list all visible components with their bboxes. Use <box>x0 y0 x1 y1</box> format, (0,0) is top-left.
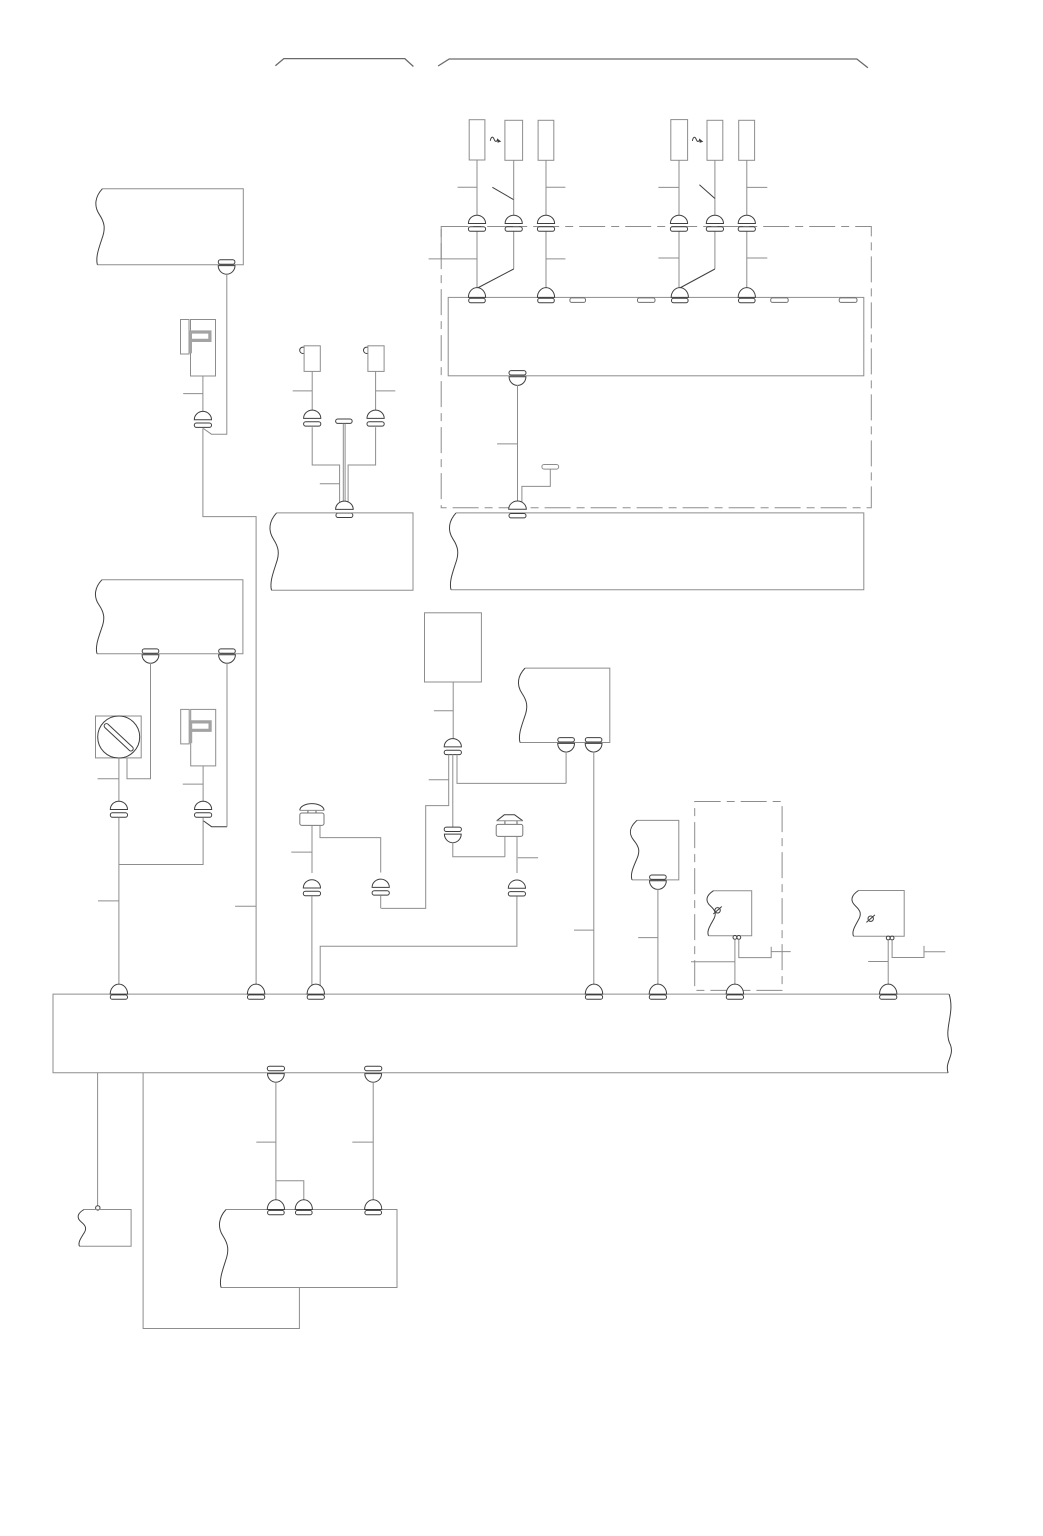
tick label wire C24 <box>574 929 594 931</box>
tick label wire B8 <box>868 961 888 963</box>
connector pair C9 at B1 <box>218 260 235 274</box>
wire C5 down <box>714 231 716 269</box>
connector pair C22 <box>508 880 525 896</box>
harness box B6 <box>630 820 678 880</box>
wire F3 down <box>545 160 547 215</box>
wire C24 to bus <box>593 752 595 992</box>
joint connector JC1 <box>300 804 324 826</box>
branch wire B8 <box>892 940 924 958</box>
wire J2 down <box>202 766 204 802</box>
wire B8 to bus <box>887 940 889 992</box>
fuse F4 <box>671 120 688 161</box>
fuse F5 <box>707 120 723 160</box>
spare terminal tab 2 <box>638 298 656 303</box>
tick label wire F1 <box>458 186 477 188</box>
wire F4 down <box>678 160 680 215</box>
diagonal joint F2 wire to dome D1 <box>478 269 514 288</box>
connector pair C3 <box>537 215 554 231</box>
tick label pin1 <box>429 779 449 781</box>
wire C15 drop <box>226 663 228 827</box>
tick label wire C3 <box>546 258 565 260</box>
bus connector (B7 chain) <box>726 984 743 999</box>
wire C12 route <box>348 427 376 507</box>
wire JC2 pinR <box>516 836 518 873</box>
tick label wire C4 <box>658 257 679 259</box>
spare terminal tab 3 <box>771 298 789 303</box>
lower junction box B <box>449 513 863 590</box>
tick label wire SW1 <box>98 778 119 780</box>
branch wire from stub <box>522 469 550 503</box>
bus connector (B6 chain) <box>649 984 666 999</box>
harness box B3 <box>95 580 242 654</box>
tick label bus drop wire <box>235 905 256 907</box>
wire C18 pin1 route <box>381 755 449 909</box>
tick label wire F3 <box>546 186 565 188</box>
component N1 <box>300 346 321 372</box>
tick label wire B4 <box>434 710 453 712</box>
terminal rings B7 <box>733 936 741 940</box>
bus connector (B5 chain) <box>585 984 602 999</box>
fuse F3 <box>538 120 554 160</box>
tick label wire B7 <box>691 961 735 963</box>
harness box B2 <box>270 513 413 590</box>
harness box B8 <box>852 891 904 937</box>
junction connector J1 <box>181 320 216 377</box>
bus connector (B1 chain) <box>247 984 264 999</box>
connector dome D1 at box A <box>468 288 485 303</box>
tick label wire C16 <box>98 900 119 902</box>
wire JC1 pin1 <box>311 825 313 873</box>
switch SW1 <box>96 716 142 758</box>
tick label JC1 pin1 <box>291 851 312 853</box>
wire C19 to JC2 <box>453 843 505 857</box>
wire C6 down <box>746 231 748 288</box>
tick label wire C6 <box>747 257 768 259</box>
connector pair C20 <box>303 880 320 896</box>
bus bottom connector E1 <box>267 1066 284 1082</box>
wire F2 down <box>513 160 515 215</box>
wire N1 down <box>311 371 313 412</box>
connector pair C18 <box>444 739 461 755</box>
connector dome D3 at box A <box>671 288 688 303</box>
wire C3 down <box>545 231 547 288</box>
diagonal joint C17 to B3 drop <box>204 821 228 827</box>
wire F6 down <box>746 160 748 215</box>
connector dome C28 at B10 <box>365 1200 382 1215</box>
connector pair C17 <box>195 801 212 817</box>
connector dome C27 at B10 <box>295 1200 312 1215</box>
twin wire from spare flange <box>343 424 345 504</box>
wire N2 down <box>375 371 377 412</box>
wire C14 to switch <box>127 663 151 779</box>
tick label wire J2 <box>183 783 203 785</box>
wire C1 to dome D1 <box>476 231 478 288</box>
wire C17 to junction <box>119 817 203 864</box>
connector pair C15 at B3 <box>219 649 236 663</box>
wire C25 to bus <box>657 889 659 992</box>
bolt symbol in B8 <box>866 915 875 923</box>
wire B1 to joint <box>203 274 227 435</box>
component N2 <box>364 346 385 372</box>
tick label wire J1 <box>183 393 203 395</box>
spare flange terminal <box>336 419 353 423</box>
component dashed outline (right) <box>695 802 782 991</box>
fuse F2 <box>505 120 523 160</box>
branch wire to C27 <box>276 1181 304 1205</box>
wire J1 down <box>202 376 204 412</box>
wire JC2 pinL <box>504 836 506 856</box>
harness brace B <box>438 59 868 68</box>
wire C18 pin2 <box>452 755 454 828</box>
tick label wire F6 <box>747 186 768 188</box>
option slash on wire F2 <box>492 187 513 199</box>
harness box B1 <box>96 189 243 265</box>
bus bottom connector E2 <box>365 1066 382 1082</box>
wire F5 down <box>714 160 716 215</box>
tick label wire C25 <box>638 937 658 939</box>
junction block box A <box>448 297 864 375</box>
tick label wire C7 <box>497 443 517 445</box>
harness box B9 <box>78 1210 131 1247</box>
terminal stub tab <box>542 465 559 470</box>
connector pair C14 at B3 <box>142 649 159 663</box>
connector pair C25 at B6 <box>650 875 667 889</box>
terminal rings B8 <box>886 936 894 940</box>
tick label wire N1 <box>293 390 313 392</box>
connector dome D2 at box A <box>537 288 554 303</box>
fusible link marker 1 <box>490 137 501 143</box>
wire C2 down <box>513 231 515 269</box>
spare terminal tab 1 <box>570 298 586 303</box>
connector pair C16 <box>110 801 127 817</box>
wire SW1 down <box>118 758 120 802</box>
connector dome D4 at box A <box>738 288 755 303</box>
wire bus to B9 <box>97 1073 99 1206</box>
wire C22 route to bus <box>320 897 517 990</box>
wire C16 to bus <box>118 817 120 992</box>
wire E2 to C28 <box>372 1082 374 1205</box>
tick label route C11 <box>320 483 340 485</box>
wire C11 route <box>312 427 339 507</box>
wire C18 pin3 route <box>457 755 566 784</box>
bus connector (SW1 chain) <box>110 984 127 999</box>
harness brace A <box>275 59 413 67</box>
wire C20 to bus <box>311 896 313 990</box>
tick label wire E1 <box>256 1141 276 1143</box>
connector pair C23 at B5 <box>558 738 575 752</box>
connector pair C24 at B5 <box>585 738 602 752</box>
wire B4 down <box>452 682 454 740</box>
tick label JC2 pinR <box>518 857 538 859</box>
main harness bus <box>53 994 951 1073</box>
ring terminal B9 <box>96 1206 100 1210</box>
bolt symbol in B7 <box>713 907 722 915</box>
wire C10 to bus drop <box>203 428 256 992</box>
wire E1 to C26 <box>275 1082 277 1205</box>
connector pair C7 under box A <box>509 371 526 386</box>
connector pair C2 <box>505 215 522 231</box>
connector pair C6 <box>738 215 755 231</box>
spare terminal tab 4 <box>839 298 857 303</box>
wire C21 to pair junction <box>380 896 382 909</box>
tick spur B8 <box>925 951 946 953</box>
connector pair C10 <box>194 411 211 427</box>
connector pair C1 <box>468 215 485 231</box>
connector dome C13 at B2 <box>336 501 354 517</box>
junction connector J2 <box>181 709 216 766</box>
component box B4 <box>425 613 482 682</box>
branch wire B7 <box>739 939 771 957</box>
wire C23 down <box>565 752 567 784</box>
wire F1 down <box>476 160 478 215</box>
stub wire left of C1 <box>429 227 477 259</box>
connector dome C26 at B10 <box>267 1200 284 1215</box>
joint connector JC2 <box>496 815 523 837</box>
connector dome C8 at box B <box>509 501 527 518</box>
tick label wire N2 <box>376 390 396 392</box>
option slash on wire F5 <box>699 185 715 199</box>
tick label wire F4 <box>658 186 679 188</box>
bus connector (B8 chain) <box>880 984 897 999</box>
connector pair C11 <box>304 410 321 426</box>
wire JC1 pin2 route <box>320 825 381 872</box>
diagonal joint F5 wire to dome D3 <box>680 269 715 288</box>
wire C7 down <box>517 385 519 503</box>
connector pair C12 <box>367 410 384 426</box>
relay block dashed outline <box>441 227 871 508</box>
tick label wire E2 <box>352 1141 373 1143</box>
harness box B7 <box>707 891 752 936</box>
wire B7 to bus <box>734 939 736 992</box>
harness box B10 <box>219 1210 397 1288</box>
fuse F6 <box>739 120 755 160</box>
fuse F1 <box>469 120 485 160</box>
ground loop wire <box>143 1073 299 1329</box>
connector pair C4 <box>670 215 687 231</box>
fusible link marker 2 <box>692 137 703 143</box>
connector pair C21 <box>372 879 389 895</box>
bus connector (JC1 chain) <box>307 984 324 999</box>
tick spur B7 <box>771 951 791 953</box>
harness box B5 <box>518 668 609 742</box>
connector pair C5 <box>706 215 723 231</box>
wire C4 to dome D3 <box>678 231 680 288</box>
inverted connector pair C19 <box>444 827 461 843</box>
